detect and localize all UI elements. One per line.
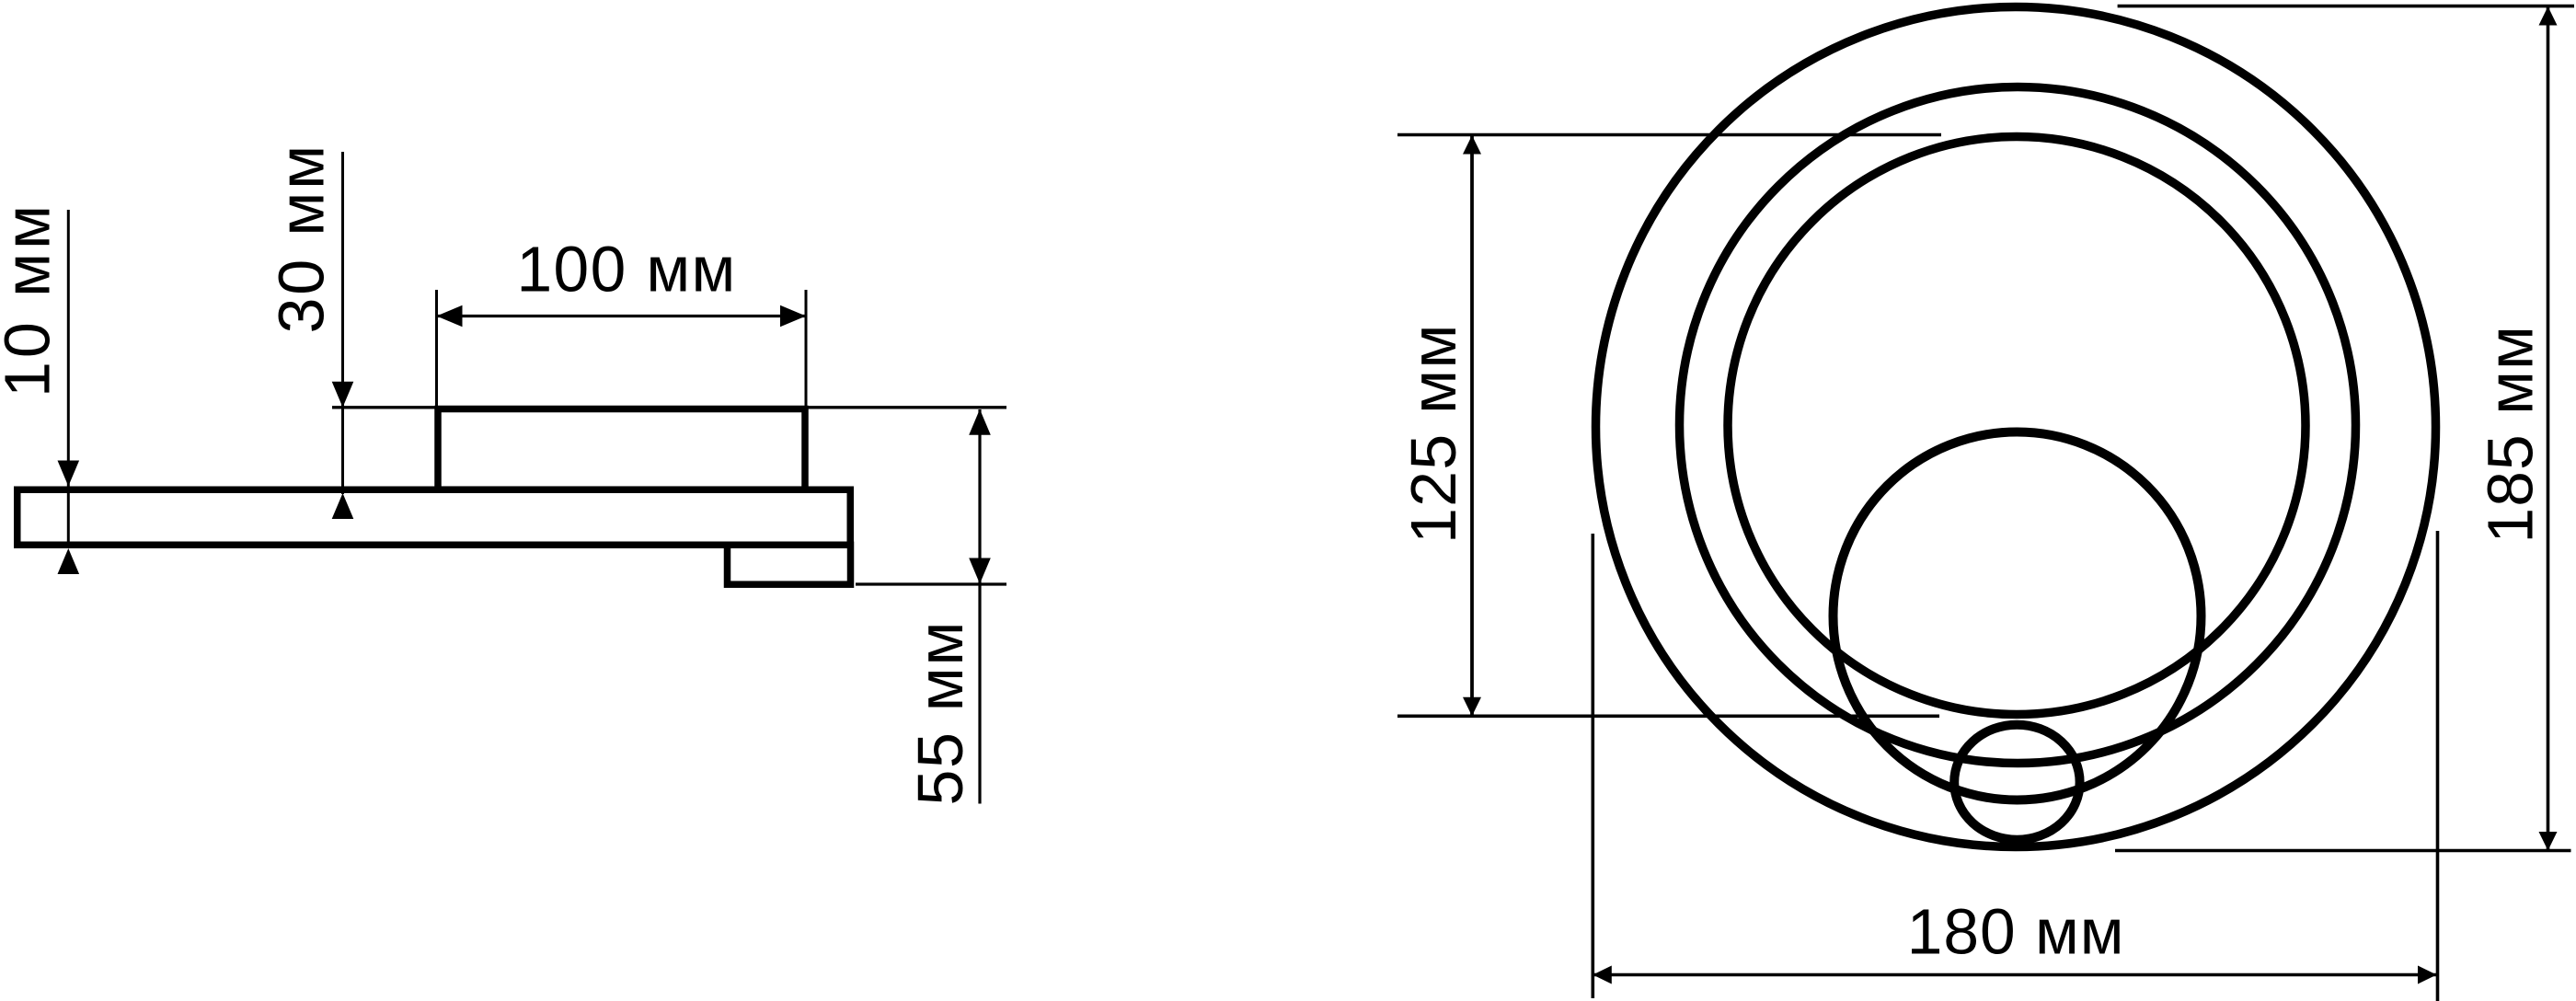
svg-text:55 мм: 55 мм [904, 620, 976, 806]
svg-text:100 мм: 100 мм [517, 234, 737, 305]
svg-text:180 мм: 180 мм [1907, 896, 2125, 968]
svg-text:185 мм: 185 мм [2474, 325, 2546, 543]
svg-text:10 мм: 10 мм [0, 201, 63, 397]
svg-text:30 мм: 30 мм [266, 143, 338, 334]
svg-text:125 мм: 125 мм [1397, 323, 1469, 544]
